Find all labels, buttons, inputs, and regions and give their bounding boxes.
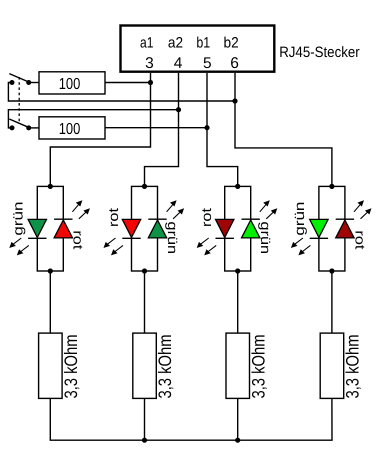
junction pin5 x R2 wire [204, 125, 209, 130]
switch S2 contact right [26, 125, 31, 130]
svg-text:rot: rot [199, 208, 214, 227]
svg-text:6: 6 [230, 55, 239, 72]
svg-text:RJ45-Stecker: RJ45-Stecker [279, 44, 360, 61]
wire pin5 to LED3 [207, 73, 238, 186]
svg-text:a1: a1 [140, 35, 153, 52]
wire S2 left contact up and right to pin4 column [8, 110, 178, 128]
D1 right LED cathode bar [54, 218, 72, 220]
switch S1 lever [9, 74, 27, 82]
D4 bottom junction [329, 268, 334, 273]
svg-text:3,3 kOhm: 3,3 kOhm [248, 335, 268, 399]
D1 top junction [48, 184, 53, 189]
svg-text:3,3 kOhm: 3,3 kOhm [155, 335, 175, 399]
resistor R4 body [133, 333, 157, 398]
wire pin4 to LED2 [145, 73, 179, 186]
resistor R1 100 body [39, 72, 105, 94]
wire S2 right contact to R2 [29, 127, 39, 129]
D3 right LED cathode bar [242, 218, 260, 220]
ground bus wire [50, 398, 332, 440]
RJ45 connector box U1 [121, 26, 275, 72]
svg-text:rot: rot [71, 230, 86, 249]
LED unit D1 branch box [37, 186, 63, 271]
svg-text:grün: grün [258, 222, 273, 255]
D1 bottom junction [48, 268, 53, 273]
wire pin3 to LED1 [50, 73, 150, 186]
D4 top junction [329, 184, 334, 189]
svg-text:rot: rot [352, 230, 367, 249]
junction pin3 x R1 wire [148, 80, 153, 85]
wire LED3 to R5 [237, 271, 239, 333]
wire S1 left contact down and right to pin6 column [8, 83, 235, 102]
D2 light arrows down-left [104, 238, 123, 255]
svg-text:3: 3 [145, 55, 154, 72]
svg-text:a2: a2 [168, 35, 183, 52]
junction pin6 x S1 wire [232, 98, 237, 103]
D3 light arrows down-left [198, 238, 217, 255]
D1 left LED triangle (grün) [28, 219, 46, 237]
D2 left LED triangle (rot) [122, 219, 140, 237]
D4 right LED triangle (rot) [336, 220, 354, 238]
D2 top junction [142, 184, 147, 189]
D3 bottom junction [235, 268, 240, 273]
D2 right LED triangle (grün) [148, 220, 166, 238]
svg-text:100: 100 [59, 121, 81, 138]
svg-text:3,3 kOhm: 3,3 kOhm [61, 335, 81, 399]
switch S1 contact left [10, 80, 15, 85]
wire LED2 to R4 [144, 271, 146, 333]
D1 light arrows up-right [72, 201, 89, 219]
resistor R6 body [320, 333, 344, 398]
D4 left LED triangle (grün) [310, 219, 328, 237]
junction bus x R5 [235, 438, 240, 443]
svg-text:b2: b2 [224, 35, 239, 52]
svg-text:4: 4 [174, 55, 183, 72]
svg-text:grün: grün [292, 202, 307, 236]
svg-text:b1: b1 [196, 35, 210, 52]
resistor R3 body [39, 333, 63, 398]
wire R2 to pin5 column [105, 127, 207, 129]
D3 left LED triangle (rot) [216, 219, 234, 237]
D3 top junction [235, 184, 240, 189]
D1 right LED triangle (rot) [54, 220, 72, 238]
LED unit D4 branch box [319, 186, 345, 271]
resistor R2 100 body [39, 117, 105, 139]
D2 left LED cathode bar [122, 237, 140, 239]
svg-text:5: 5 [203, 55, 212, 72]
wire R5 to bus [237, 398, 239, 440]
D4 light arrows up-right [354, 201, 371, 219]
wire R1 to pin3 column [105, 82, 151, 84]
wire LED1 to R3 [49, 271, 51, 333]
svg-text:3,3 kOhm: 3,3 kOhm [343, 335, 363, 399]
D3 right LED triangle (grün) [242, 220, 260, 238]
svg-text:grün: grün [10, 202, 25, 236]
D2 right LED cathode bar [148, 218, 166, 220]
D2 light arrows up-right [167, 201, 184, 219]
svg-text:100: 100 [59, 76, 81, 93]
D4 light arrows down-left [292, 238, 311, 255]
D4 right LED cathode bar [336, 218, 354, 220]
resistor R5 body [226, 333, 250, 398]
switch S1 contact right [26, 80, 31, 85]
D3 light arrows up-right [260, 201, 277, 219]
switch S2 contact left [10, 125, 15, 130]
D1 left LED cathode bar [28, 237, 46, 239]
LED unit D2 branch box [132, 186, 158, 271]
svg-text:grün: grün [165, 222, 180, 255]
D2 bottom junction [142, 268, 147, 273]
LED unit D3 branch box [225, 186, 251, 271]
D4 left LED cathode bar [310, 237, 328, 239]
D1 light arrows down-left [10, 238, 29, 255]
D3 left LED cathode bar [216, 237, 234, 239]
svg-text:rot: rot [106, 208, 121, 227]
wire LED4 to R6 [331, 271, 333, 333]
wire R4 to bus [144, 398, 146, 440]
switch S2 lever [9, 119, 27, 127]
junction pin4 x S2 wire [176, 107, 181, 112]
junction bus x R4 [142, 438, 147, 443]
wire S1 right contact to R1 [29, 82, 39, 84]
wire pin6 to LED4 [235, 73, 332, 186]
gang link dashed [18, 77, 20, 124]
